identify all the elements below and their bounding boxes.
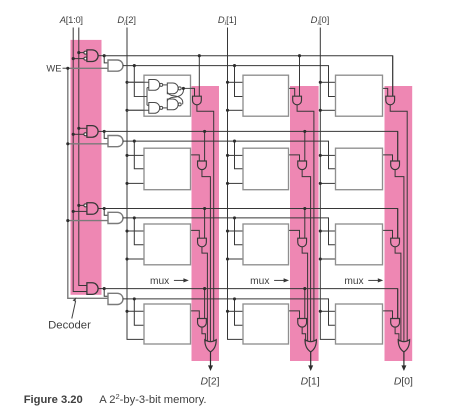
wire: WE input — [63, 67, 109, 69]
output OR gate column D[2] — [205, 340, 216, 352]
wire: data input line Di[2] — [127, 28, 144, 340]
highlight: decoder column — [71, 40, 102, 295]
label Di[1] — [218, 14, 237, 27]
wire: Q output row 2 col D[0] — [383, 230, 393, 238]
bit cell box row 0 col D[1] — [243, 75, 289, 116]
junction: A0 line row 1 — [77, 127, 80, 130]
wire: Q output row 0 col D[1] — [289, 88, 295, 96]
wire: wordline row 3 — [104, 289, 398, 319]
wire: Q output row 3 col D[1] — [289, 311, 300, 319]
wire: wordline 3 branch to enable AND — [104, 289, 108, 297]
wire: bit line row 0 col D[1] — [297, 105, 314, 342]
wire: Q output row 3 col D[2] — [191, 311, 200, 319]
wire: enable branch row 1 col D[2] — [133, 140, 144, 169]
svg-text:mux: mux — [344, 276, 363, 287]
word-enable AND gate row 2 — [108, 212, 123, 223]
wire: bit line row 0 col D[2] — [197, 105, 214, 342]
wire: enable line row 0 — [123, 66, 336, 97]
wire: data taps row 3 col D[1] — [226, 310, 243, 313]
bit cell box row 1 col D[0] — [336, 148, 383, 190]
svg-text:Di[1]: Di[1] — [218, 14, 237, 27]
wire: enable branch row 2 col D[1] — [233, 216, 243, 244]
wire: bit line row 2 col D[0] — [395, 247, 401, 342]
wire: data input line Di[0] — [320, 28, 335, 340]
wire: wordline tap row 1 col D[2] — [203, 130, 206, 161]
wire: Q output row 0 col D[2] — [191, 88, 195, 96]
wire: output arrow D[1] — [308, 352, 313, 371]
wire: wordline 2 branch to enable AND — [104, 209, 108, 216]
svg-text:Di[2]: Di[2] — [117, 14, 136, 27]
bit cell box row 1 col D[2] — [144, 148, 191, 190]
wire: bit line row 2 col D[1] — [302, 247, 307, 342]
wire: enable line row 3 — [123, 299, 336, 325]
wire: Q output row 1 col D[1] — [289, 155, 300, 161]
wire: enable branch row 3 col D[1] — [233, 297, 243, 325]
highlight: bit line column 1 — [290, 86, 319, 361]
junction: A1 line row 0 — [72, 57, 75, 60]
wire: wordline tap row 2 col D[2] — [203, 207, 206, 238]
wire: wordline row 0 — [104, 56, 393, 96]
wire: wordline 0 branch to enable AND — [104, 56, 108, 63]
bit cell box row 3 col D[0] — [336, 304, 383, 344]
wire: bit line row 3 col D[1] — [302, 327, 305, 341]
wire: data taps row 0 col D[2] — [125, 81, 149, 112]
junction: wordline 1 at decoder output — [103, 130, 106, 133]
wire: N1 out to N2 — [163, 84, 168, 86]
wire: Q output row 2 col D[2] — [191, 230, 200, 238]
wire: wordline tap row 3 col D[2] — [203, 287, 206, 318]
bit cell box row 3 col D[1] — [243, 304, 289, 344]
wire: wordline tap row 2 col D[0] — [397, 209, 399, 239]
wire: wordline tap row 2 col D[1] — [303, 207, 306, 238]
wire: wordline row 2 — [104, 209, 398, 239]
wire: data taps row 2 col D[0] — [319, 229, 336, 260]
wire: enable branch row 0 col D[1] — [233, 64, 243, 96]
wire: bit line row 1 col D[0] — [395, 170, 404, 342]
bit cell box row 0 col D[2] — [144, 75, 191, 116]
bit cell box row 2 col D[2] — [144, 224, 191, 265]
label A[1:0] — [59, 14, 83, 25]
label mux column D[0] — [344, 276, 383, 287]
svg-text:D[2]: D[2] — [200, 377, 219, 388]
latch NAND gate N1 (top-left) — [149, 80, 163, 91]
wire: wordline tap row 0 col D[2] — [198, 54, 201, 96]
junction: wordline 3 at decoder output — [103, 287, 106, 290]
wire: data taps row 0 col D[1] — [226, 81, 243, 112]
svg-text:A[1:0]: A[1:0] — [59, 14, 83, 25]
wire: wordline tap row 0 col D[0] — [392, 56, 394, 96]
mux AND gate row 3 col D[0] — [391, 319, 400, 328]
wire: data taps row 0 col D[0] — [319, 81, 336, 112]
latch cell stored-bit box (word0, D[2]) input wires — [127, 82, 149, 110]
mux AND gate row 2 col D[2] — [198, 238, 207, 247]
wire: Q output row 0 col D[0] — [383, 88, 388, 96]
label mux column D[1] — [250, 276, 289, 287]
wire: enable line row 1 — [123, 141, 336, 169]
wire: WE branch row 1 — [68, 143, 108, 145]
label WE — [46, 62, 61, 73]
wire: enable line row 2 — [123, 218, 336, 245]
wire: data input line Di[1] — [228, 28, 244, 340]
mux AND gate row 2 col D[1] — [298, 238, 307, 247]
mux AND gate row 2 col D[0] — [391, 238, 400, 247]
svg-text:mux: mux — [250, 276, 269, 287]
latch NAND gate N2 (top-right) — [167, 83, 181, 94]
latch NAND gate N3 (bottom-left) — [149, 103, 163, 114]
wire: enable branch row 0 col D[2] — [133, 64, 144, 96]
wire: Q output row 1 col D[0] — [383, 155, 393, 161]
svg-text:Di[0]: Di[0] — [311, 14, 330, 27]
wire: wordline tap row 1 col D[1] — [303, 130, 306, 161]
output OR gate column D[0] — [398, 340, 409, 352]
label mux column D[2] — [150, 276, 189, 287]
wire: bit line row 1 col D[2] — [202, 170, 210, 342]
junction: WE line row 2 — [66, 219, 69, 222]
wire: cross-couple N4 to N2 — [167, 92, 183, 105]
word-enable AND gate row 0 — [108, 60, 123, 71]
mux AND gate row 0 col D[1] — [293, 96, 302, 105]
decoder AND gate row 3 (word 3) — [73, 283, 104, 295]
decoder AND gate row 0 (word 0) — [73, 50, 104, 62]
wire: wordline row 1 — [104, 131, 398, 161]
junction: A0 line row 0 — [77, 51, 80, 54]
highlight: bit line column 2 — [192, 86, 220, 361]
wire: WE branch row 2 — [68, 220, 108, 222]
label Di[2] — [117, 14, 136, 27]
junction: WE line row 0 — [66, 67, 69, 70]
label Decoder — [48, 297, 91, 331]
wire: data taps row 1 col D[0] — [319, 154, 336, 185]
junction: wordline 2 at decoder output — [103, 207, 106, 210]
wire: address line A0 (right) — [79, 28, 87, 286]
wire: wordline tap row 3 col D[0] — [397, 289, 399, 319]
output OR gate column D[1] — [305, 340, 316, 352]
wire: data taps row 2 col D[1] — [226, 229, 243, 260]
wire: bit line row 0 col D[0] — [390, 105, 407, 342]
wire: enable branch row 3 col D[2] — [133, 297, 144, 325]
decoder AND gate row 1 (word 1) — [73, 126, 104, 138]
svg-text:A 22-by-3-bit memory.: A 22-by-3-bit memory. — [99, 392, 206, 406]
wire: data taps row 1 col D[2] — [125, 154, 144, 185]
word-enable AND gate row 3 — [108, 293, 123, 304]
svg-text:Decoder: Decoder — [48, 320, 91, 332]
wire: data taps row 2 col D[2] — [125, 229, 144, 260]
decoder AND gate row 2 (word 2) — [73, 203, 104, 215]
wire: output arrow D[0] — [401, 352, 406, 371]
bit cell box row 2 col D[0] — [336, 224, 383, 265]
wire: bit line row 2 col D[2] — [202, 247, 207, 342]
svg-text:mux: mux — [150, 276, 169, 287]
junction: A1 line row 1 — [72, 133, 75, 136]
label D[0] — [394, 377, 413, 388]
wire: data taps row 3 col D[0] — [319, 310, 336, 313]
wire: output arrow D[2] — [208, 352, 213, 371]
junction: A0 line row 2 — [77, 204, 80, 207]
label D[2] — [200, 377, 219, 388]
wire: wordline tap row 0 col D[1] — [298, 54, 301, 96]
wire: data taps row 3 col D[2] — [125, 310, 144, 313]
bit cell box row 2 col D[1] — [243, 224, 289, 265]
wire: address line A1 (left) — [73, 28, 84, 292]
junction: wordline 0 at decoder output — [103, 54, 106, 57]
mux AND gate row 3 col D[1] — [298, 319, 307, 328]
wire: enable branch row 1 col D[1] — [233, 140, 243, 169]
bit cell box row 1 col D[1] — [243, 148, 289, 190]
wire: bit line row 1 col D[1] — [302, 170, 310, 342]
wire: data taps row 1 col D[1] — [226, 154, 243, 185]
junction: A1 line row 2 — [72, 210, 75, 213]
wire: N3 out to N4 — [163, 107, 168, 109]
word-enable AND gate row 1 — [108, 136, 123, 147]
wire: bit line row 3 col D[2] — [202, 327, 205, 341]
caption — [24, 392, 207, 406]
mux AND gate row 0 col D[0] — [386, 96, 395, 105]
wire: bit line row 3 col D[0] — [395, 327, 399, 341]
mux AND gate row 1 col D[0] — [391, 161, 400, 170]
svg-text:Figure 3.20: Figure 3.20 — [24, 394, 83, 406]
wire: WE vertical distribution — [68, 68, 108, 298]
wire: latch Q output — [182, 87, 195, 90]
label D[1] — [301, 377, 320, 388]
mux AND gate row 1 col D[2] — [198, 161, 207, 170]
mux AND gate row 0 col D[2] — [193, 96, 202, 105]
latch NAND gate N4 (bottom-right) — [167, 99, 181, 110]
highlight: bit line column 0 — [385, 86, 413, 361]
label Di[0] — [311, 14, 330, 27]
wire: wordline tap row 3 col D[1] — [303, 287, 306, 318]
svg-text:WE: WE — [46, 62, 61, 73]
wire: enable branch row 2 col D[2] — [133, 216, 144, 244]
bit cell box row 0 col D[0] — [336, 75, 383, 116]
wire: cross-couple N2 to N4 — [167, 88, 183, 101]
svg-text:D[1]: D[1] — [301, 377, 320, 388]
bit cell box row 3 col D[2] — [144, 304, 191, 344]
wire: Q output row 2 col D[1] — [289, 230, 300, 238]
mux AND gate row 1 col D[1] — [298, 161, 307, 170]
wire: Q output row 3 col D[0] — [383, 311, 393, 319]
junction: WE line row 1 — [66, 142, 69, 145]
wire: wordline tap row 1 col D[0] — [397, 131, 399, 161]
svg-text:D[0]: D[0] — [394, 377, 413, 388]
wire: wordline 1 branch to enable AND — [104, 131, 108, 138]
wire: Q output row 1 col D[2] — [191, 155, 200, 161]
mux AND gate row 3 col D[2] — [198, 319, 207, 328]
